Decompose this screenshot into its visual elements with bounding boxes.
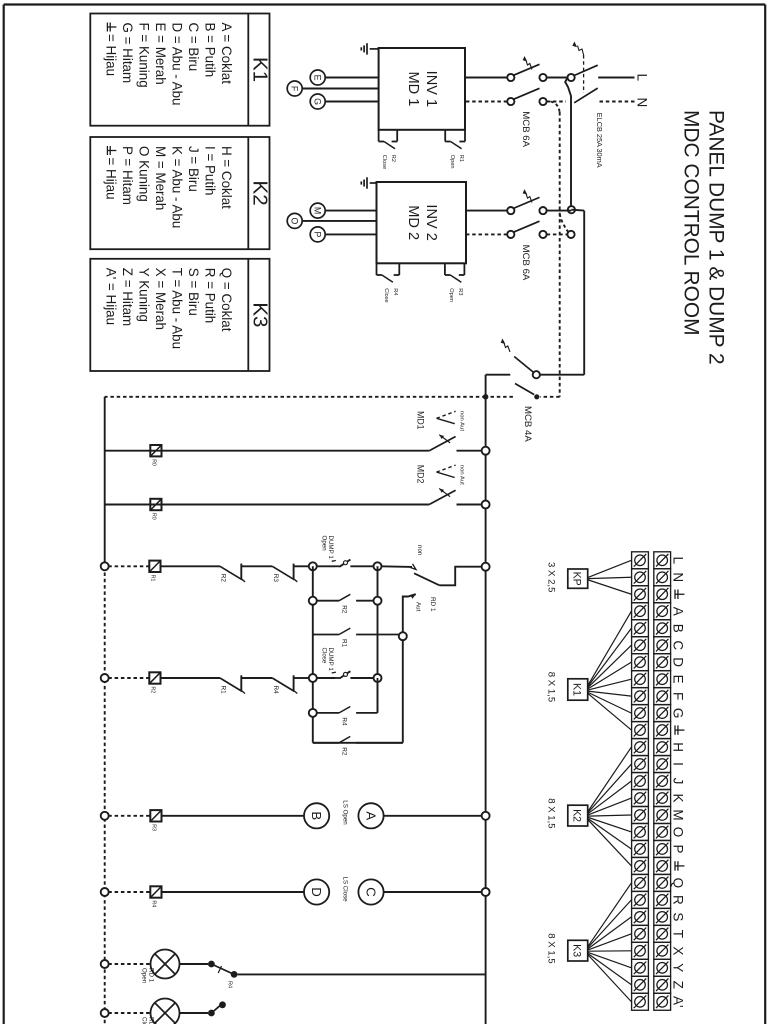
terminal O <box>302 220 376 222</box>
notch contact R1 Open <box>464 130 466 142</box>
terminal cell row2 #26 <box>632 976 649 993</box>
terminal cell row1 #9 <box>654 688 671 705</box>
terminal E <box>325 77 378 79</box>
connector bus Y455 <box>312 566 314 743</box>
terminal cell row2 #13 <box>632 756 649 773</box>
terminal cell row1 #16 <box>654 807 671 824</box>
svg-text:3 X 2,5: 3 X 2,5 <box>546 562 557 592</box>
terminal cell row2 #20 <box>632 874 649 891</box>
svg-text:R0: R0 <box>151 459 157 466</box>
cable group K2 (8 X 1,5) <box>568 805 588 826</box>
Aut contact arrow <box>410 594 416 599</box>
svg-text:R4: R4 <box>227 981 233 988</box>
terminal cell row2 #3 <box>632 586 649 603</box>
selector switch MD2 rung <box>482 501 490 509</box>
ground <box>370 182 377 184</box>
svg-text:RD 1: RD 1 <box>148 1017 155 1024</box>
svg-text:E: E <box>671 675 686 684</box>
svg-text:Close: Close <box>383 288 389 302</box>
svg-text:INV 2: INV 2 <box>423 204 439 241</box>
notch contact R4 Close <box>398 263 400 275</box>
svg-text:J: J <box>671 778 686 785</box>
svg-text:MCB 6A: MCB 6A <box>520 245 531 281</box>
terminal cell row2 #1 <box>632 552 649 569</box>
svg-text:O: O <box>671 827 686 838</box>
svg-text:J = Biru: J = Biru <box>186 146 201 192</box>
terminal cell row1 #15 <box>654 790 671 807</box>
svg-text:non: non <box>416 545 423 556</box>
svg-text:R2: R2 <box>341 747 348 756</box>
svg-text:Y Kuning: Y Kuning <box>136 268 151 322</box>
svg-text:ELCB 25A 30mA: ELCB 25A 30mA <box>595 113 604 168</box>
svg-text:A': A' <box>671 996 686 1008</box>
parallel contact rung (R4) <box>309 709 317 717</box>
svg-text:R4: R4 <box>151 901 157 908</box>
terminal cell row2 #25 <box>632 959 649 976</box>
svg-text:K3: K3 <box>249 302 272 327</box>
pushbutton DUMP 1 Open <box>339 560 350 567</box>
terminal M <box>325 210 376 212</box>
terminal G <box>325 101 378 103</box>
svg-text:INV 1: INV 1 <box>423 71 439 108</box>
svg-text:B: B <box>309 811 324 820</box>
non contact seat <box>411 564 417 570</box>
svg-text:A: A <box>671 607 686 616</box>
svg-text:H: H <box>671 742 686 752</box>
svg-text:= Hijau: = Hijau <box>103 158 118 200</box>
svg-text:M: M <box>671 809 686 820</box>
terminal cell row1 #26 <box>654 976 671 993</box>
svg-text:C = Biru: C = Biru <box>186 23 201 72</box>
svg-text:D: D <box>309 887 324 897</box>
indicator lamp RD 1 Open <box>101 960 109 968</box>
inverter unit INV 2 MD 2 <box>377 182 467 263</box>
terminal cell row2 #2 <box>632 569 649 586</box>
svg-text:D: D <box>671 657 686 667</box>
indicator lamp RD 1 Close <box>101 1009 109 1017</box>
terminal cell row2 #11 <box>632 722 649 739</box>
terminal A <box>358 803 383 828</box>
legend table K3 <box>90 259 269 371</box>
svg-text:8 X 1,5: 8 X 1,5 <box>546 672 557 702</box>
terminal cell row1 #7 <box>654 654 671 671</box>
parallel contact rung (R2) <box>313 742 339 744</box>
svg-text:K = Abu - Abu: K = Abu - Abu <box>169 146 184 228</box>
terminal cell row1 #20 <box>654 874 671 891</box>
wire N entry <box>597 101 635 103</box>
wire MCB1 L to ELCB <box>547 77 568 79</box>
wire MCB2 N to junction <box>547 233 568 235</box>
svg-text:R4: R4 <box>392 288 398 295</box>
terminal cell row1 #10 <box>654 705 671 722</box>
svg-text:non Aut: non Aut <box>459 411 465 431</box>
svg-text:N: N <box>635 98 650 108</box>
terminal cell row2 #17 <box>632 823 649 840</box>
notch contact R3 Open <box>463 263 465 275</box>
svg-text:E: E <box>313 75 323 81</box>
svg-text:K: K <box>671 794 686 803</box>
terminal cell row1 #12 <box>654 739 671 756</box>
svg-text:G: G <box>671 708 686 719</box>
wire L branch to MCB2/MCB4A <box>565 78 571 210</box>
terminal cell row1 #21 <box>654 891 671 908</box>
terminal F <box>302 88 378 90</box>
wire MCB2 L to junction <box>547 210 572 212</box>
node on top rail <box>482 563 490 571</box>
svg-text:R3: R3 <box>457 288 463 295</box>
svg-text:non Aut: non Aut <box>459 465 465 485</box>
contact R4 <box>272 678 294 691</box>
bottom rail: dashed part <box>104 566 106 1024</box>
svg-text:O: O <box>290 217 300 224</box>
svg-text:K2: K2 <box>249 181 272 206</box>
svg-text:8 X 1,5: 8 X 1,5 <box>546 933 557 963</box>
svg-text:Q: Q <box>671 878 686 889</box>
svg-text:C: C <box>364 887 379 897</box>
terminal label earth #19 <box>675 865 684 867</box>
wire MCB1 L to INV1 <box>465 77 507 79</box>
connector bus Y390 <box>377 566 379 711</box>
node <box>309 562 317 570</box>
svg-text:Open: Open <box>448 288 454 302</box>
contact R2 <box>220 566 242 579</box>
svg-text:Open: Open <box>321 536 328 552</box>
svg-text:N: N <box>671 572 686 582</box>
wire L entry <box>598 77 634 79</box>
svg-text:R2: R2 <box>150 687 156 694</box>
svg-text:PANEL DUMP 1 & DUMP 2: PANEL DUMP 1 & DUMP 2 <box>705 110 728 365</box>
svg-text:R0: R0 <box>151 513 157 520</box>
terminal cell row2 #10 <box>632 705 649 722</box>
terminal cell row1 #27 <box>654 993 671 1010</box>
svg-text:K1: K1 <box>249 57 272 82</box>
terminal cell row1 #3 <box>654 586 671 603</box>
svg-text:E = Merah: E = Merah <box>153 23 168 85</box>
terminal cell row2 #19 <box>632 857 649 874</box>
svg-text:F: F <box>290 86 300 92</box>
terminal cell row2 #4 <box>632 603 649 620</box>
svg-text:C: C <box>671 640 686 650</box>
parallel contact rung R2 <box>309 597 317 605</box>
svg-text:P: P <box>313 231 323 237</box>
svg-text:R3: R3 <box>272 574 279 583</box>
svg-text:K2: K2 <box>570 809 582 822</box>
svg-text:Z = Hitam: Z = Hitam <box>120 268 135 326</box>
svg-text:Open: Open <box>449 155 455 169</box>
svg-text:O Kuning: O Kuning <box>136 146 151 202</box>
terminal cell row2 #8 <box>632 671 649 688</box>
wire MCB1 N to ELCB <box>547 101 566 103</box>
MCB 4A <box>540 374 584 376</box>
svg-text:Close: Close <box>321 648 328 664</box>
svg-text:R = Putih: R = Putih <box>202 268 217 323</box>
fuse-disconnect box <box>150 499 161 510</box>
rung DUMP1-OPEN: node on bottom rail <box>101 562 109 570</box>
curve N2 to branch <box>560 212 569 232</box>
drawing border frame <box>764 5 766 1024</box>
svg-text:MCB 4A: MCB 4A <box>522 406 533 442</box>
terminal cell row2 #14 <box>632 773 649 790</box>
pushbutton DUMP 1 Close <box>339 671 350 678</box>
svg-text:R1: R1 <box>150 575 156 582</box>
svg-text:R2: R2 <box>341 605 348 614</box>
terminal cell row2 #15 <box>632 790 649 807</box>
svg-text:P = Hitam: P = Hitam <box>120 146 135 205</box>
cable group KP (3 X 2,5) <box>568 569 588 588</box>
svg-text:S = Biru: S = Biru <box>186 268 201 316</box>
svg-text:LS Close: LS Close <box>342 877 349 903</box>
svg-text:LS Open: LS Open <box>342 800 349 825</box>
terminal cell row2 #7 <box>632 654 649 671</box>
svg-text:MD 1: MD 1 <box>405 71 421 106</box>
terminal D <box>304 879 329 904</box>
terminal cell row2 #18 <box>632 840 649 857</box>
svg-text:R1: R1 <box>458 155 464 162</box>
svg-text:MD2: MD2 <box>416 465 426 484</box>
svg-text:I: I <box>671 762 686 766</box>
legend table K2 <box>90 137 269 249</box>
top rail (L after MCB4A) <box>485 375 487 1024</box>
terminal cell row2 #6 <box>632 637 649 654</box>
svg-text:F: F <box>671 692 686 700</box>
terminal cell row2 #27 <box>632 993 649 1010</box>
terminal cell row2 #16 <box>632 807 649 824</box>
ELCB 25A 30mA <box>568 74 575 81</box>
fuse-disconnect box <box>149 561 160 572</box>
svg-text:R: R <box>671 895 686 905</box>
selector switch MD1 rung <box>482 447 490 455</box>
svg-text:A: A <box>364 811 379 820</box>
junction N2 <box>567 231 574 238</box>
svg-text:M: M <box>313 207 323 214</box>
svg-text:A' = Hijau: A' = Hijau <box>103 268 118 325</box>
cable group K3 (8 X 1,5) <box>568 940 588 961</box>
terminal C <box>358 879 383 904</box>
limit switch row D/C <box>101 888 109 896</box>
svg-text:RD 1: RD 1 <box>429 597 436 612</box>
svg-text:Y: Y <box>671 963 686 972</box>
svg-text:R3: R3 <box>151 824 157 831</box>
svg-text:K1: K1 <box>570 683 582 696</box>
terminal cell row2 #24 <box>632 942 649 959</box>
svg-text:MD 2: MD 2 <box>405 205 421 240</box>
svg-text:Z: Z <box>671 981 686 989</box>
terminal cell row1 #5 <box>654 620 671 637</box>
node <box>374 562 382 570</box>
limit switch row B/A <box>101 812 109 820</box>
svg-text:R4: R4 <box>272 686 279 695</box>
contact R3 <box>272 566 294 579</box>
terminal P <box>325 233 376 235</box>
terminal cell row1 #17 <box>654 823 671 840</box>
MCB MCB 6A <box>539 74 546 81</box>
bottom rail: solid part <box>104 397 106 566</box>
svg-text:Aut: Aut <box>414 602 421 612</box>
node <box>309 674 317 682</box>
terminal label earth #3 <box>675 593 684 595</box>
svg-text:I = Putih: I = Putih <box>202 146 217 196</box>
holding contact rung R1 <box>316 634 339 636</box>
terminal cell row1 #25 <box>654 959 671 976</box>
svg-text:R1: R1 <box>220 686 227 695</box>
notch contact R2 Close <box>396 130 398 142</box>
svg-text:Close: Close <box>141 1017 148 1024</box>
svg-text:L: L <box>635 74 650 82</box>
terminal cell row1 #13 <box>654 756 671 773</box>
terminal cell row1 #23 <box>654 925 671 942</box>
wire N branch (dashed) <box>559 112 561 397</box>
svg-text:L: L <box>671 557 686 565</box>
svg-text:H = Coklat: H = Coklat <box>219 146 234 209</box>
fuse-disconnect box <box>150 810 161 821</box>
svg-text:MD1: MD1 <box>416 411 426 430</box>
terminal cell row2 #12 <box>632 739 649 756</box>
svg-text:Q = Coklat: Q = Coklat <box>219 268 234 332</box>
left ladder feeder (N, dashed) <box>105 396 486 398</box>
terminal label earth #11 <box>675 729 684 731</box>
terminal cell row1 #19 <box>654 857 671 874</box>
svg-text:MCB 6A: MCB 6A <box>520 111 531 147</box>
svg-text:Close: Close <box>381 155 387 169</box>
terminal cell row2 #22 <box>632 908 649 925</box>
contact R1 <box>220 678 242 691</box>
svg-text:B = Putih: B = Putih <box>202 23 217 78</box>
svg-text:RD 1: RD 1 <box>148 968 155 983</box>
svg-text:S: S <box>671 912 686 921</box>
MCB 4A N pole (dashed) <box>540 396 560 398</box>
wire MCB2 L to INV2 <box>466 210 507 212</box>
terminal cell row1 #24 <box>654 942 671 959</box>
terminal cell row2 #5 <box>632 620 649 637</box>
svg-text:X = Merah: X = Merah <box>153 268 168 330</box>
terminal cell row1 #14 <box>654 773 671 790</box>
svg-text:= Hijau: = Hijau <box>103 34 118 76</box>
fuse-disconnect box <box>149 672 160 683</box>
terminal cell row1 #6 <box>654 637 671 654</box>
svg-text:A = Coklat: A = Coklat <box>219 23 234 85</box>
terminal cell row1 #22 <box>654 908 671 925</box>
inverter unit INV 1 MD 1 <box>379 48 465 130</box>
wire N pole curve to branch <box>551 102 560 113</box>
terminal cell row2 #23 <box>632 925 649 942</box>
terminal cell row1 #4 <box>654 603 671 620</box>
svg-text:M = Merah: M = Merah <box>153 146 168 210</box>
svg-text:T = Abu - Abu: T = Abu - Abu <box>169 268 184 349</box>
fuse-disconnect box <box>150 886 161 897</box>
terminal cell row1 #2 <box>654 569 671 586</box>
junction L <box>568 206 575 213</box>
junction RD1 <box>399 632 407 640</box>
fuse-disconnect box <box>150 445 161 456</box>
svg-text:F = Kuning: F = Kuning <box>136 23 151 88</box>
svg-text:G = Hitam: G = Hitam <box>120 23 135 84</box>
terminal cell row1 #8 <box>654 671 671 688</box>
wire MCB1 N to INV1 <box>465 101 507 103</box>
terminal cell row1 #1 <box>654 552 671 569</box>
terminal cell row2 #9 <box>632 688 649 705</box>
terminal cell row1 #18 <box>654 840 671 857</box>
svg-text:P: P <box>671 844 686 853</box>
svg-text:R2: R2 <box>390 155 396 162</box>
cable group K1 (8 X 1,5) <box>568 679 588 700</box>
svg-text:K3: K3 <box>570 944 582 957</box>
svg-text:G: G <box>313 98 323 105</box>
node <box>374 674 382 682</box>
svg-text:R1: R1 <box>341 639 348 648</box>
legend table K1 <box>90 14 269 126</box>
wire MCB2 N to INV2 <box>466 233 507 235</box>
svg-text:MDC CONTROL ROOM: MDC CONTROL ROOM <box>680 110 703 336</box>
svg-text:X: X <box>671 946 686 955</box>
svg-text:Open: Open <box>141 968 148 984</box>
svg-text:KP: KP <box>570 572 582 586</box>
terminal cell row1 #11 <box>654 722 671 739</box>
svg-text:R4: R4 <box>341 717 348 726</box>
svg-text:8 X 1,5: 8 X 1,5 <box>546 798 557 828</box>
rung DUMP1-CLOSE: node on bottom rail <box>101 674 109 682</box>
selector blade RD1 <box>414 573 439 585</box>
svg-text:R2: R2 <box>220 574 227 583</box>
terminal cell row2 #21 <box>632 891 649 908</box>
svg-text:B: B <box>671 624 686 633</box>
terminal B <box>304 803 329 828</box>
svg-text:D = Abu - Abu: D = Abu - Abu <box>169 23 184 106</box>
ground <box>370 48 379 50</box>
svg-text:T: T <box>671 930 686 938</box>
MCB MCB 6A <box>539 207 546 214</box>
